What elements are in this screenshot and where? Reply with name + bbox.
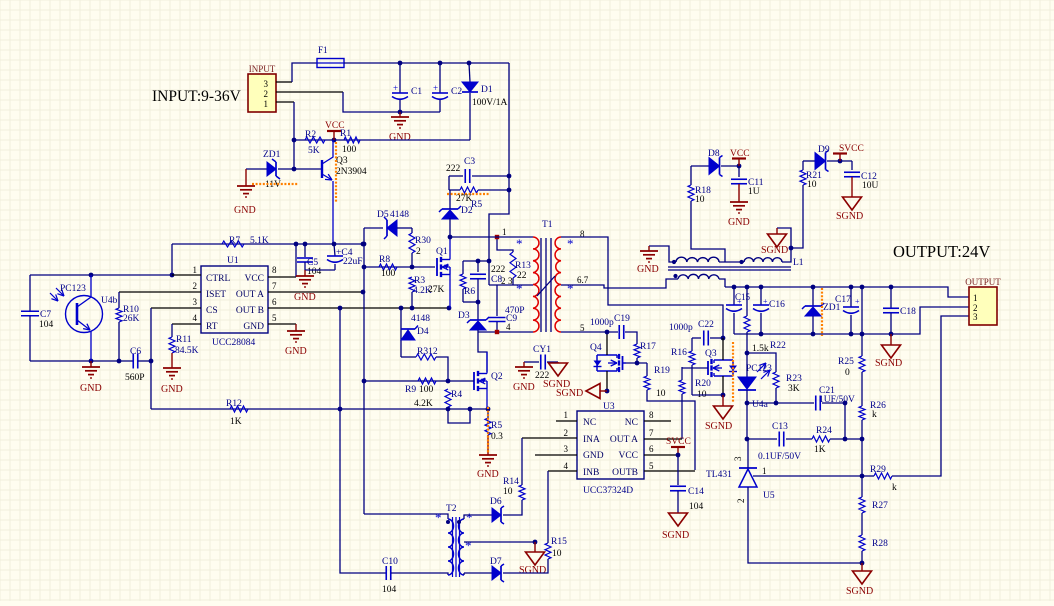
svg-text:GND: GND xyxy=(80,383,102,394)
svg-text:GND: GND xyxy=(161,384,183,395)
svg-text:CY1: CY1 xyxy=(533,345,551,355)
svg-text:R24: R24 xyxy=(816,426,832,436)
svg-text:R16: R16 xyxy=(671,348,687,358)
svg-text:SGND: SGND xyxy=(761,245,788,256)
svg-text:7: 7 xyxy=(649,428,654,438)
svg-text:L1: L1 xyxy=(793,258,804,268)
svg-text:2: 2 xyxy=(736,499,746,504)
svg-text:8: 8 xyxy=(272,265,277,275)
svg-text:10U: 10U xyxy=(862,181,879,191)
svg-text:R27: R27 xyxy=(872,501,888,511)
svg-text:*: * xyxy=(567,281,574,296)
svg-text:D7: D7 xyxy=(490,557,502,567)
svg-text:U5: U5 xyxy=(763,491,775,501)
svg-text:+: + xyxy=(393,83,398,93)
svg-text:INA: INA xyxy=(583,435,600,445)
svg-text:OUT A: OUT A xyxy=(610,435,638,445)
svg-text:2: 2 xyxy=(193,281,198,291)
svg-text:U4a: U4a xyxy=(752,400,769,410)
svg-text:INPUT: INPUT xyxy=(249,64,276,74)
svg-text:R8: R8 xyxy=(379,255,390,265)
svg-text:GND: GND xyxy=(477,469,499,480)
svg-text:2: 2 xyxy=(416,247,421,257)
svg-text:R4: R4 xyxy=(451,390,462,400)
svg-text:4148: 4148 xyxy=(411,314,430,324)
svg-text:C13: C13 xyxy=(772,422,788,432)
svg-text:222: 222 xyxy=(446,164,461,174)
svg-text:27K: 27K xyxy=(428,285,445,295)
svg-text:4: 4 xyxy=(506,322,511,332)
svg-text:VCC: VCC xyxy=(244,274,264,284)
svg-text:5K: 5K xyxy=(308,146,320,156)
svg-text:GND: GND xyxy=(294,292,316,303)
svg-text:84.5K: 84.5K xyxy=(175,346,199,356)
svg-text:7: 7 xyxy=(272,281,277,291)
svg-text:5: 5 xyxy=(649,461,654,471)
svg-text:INPUT:9-36V: INPUT:9-36V xyxy=(152,88,242,105)
svg-text:C16: C16 xyxy=(769,300,785,310)
svg-text:Q1: Q1 xyxy=(436,247,448,257)
svg-text:SGND: SGND xyxy=(875,358,902,369)
svg-text:*: * xyxy=(516,236,523,251)
svg-text:10: 10 xyxy=(695,195,705,205)
svg-text:1: 1 xyxy=(264,99,269,109)
svg-text:1U: 1U xyxy=(748,187,760,197)
svg-text:1000p: 1000p xyxy=(590,318,614,328)
svg-text:1K: 1K xyxy=(230,417,242,427)
svg-text:C22: C22 xyxy=(698,320,714,330)
svg-text:C17: C17 xyxy=(835,295,851,305)
svg-text:Q2: Q2 xyxy=(491,372,503,382)
svg-text:22: 22 xyxy=(517,271,527,281)
svg-text:Q3: Q3 xyxy=(336,156,348,166)
svg-text:GND: GND xyxy=(243,322,264,332)
svg-text:C7: C7 xyxy=(40,310,51,320)
svg-text:4: 4 xyxy=(193,313,198,323)
svg-text:INB: INB xyxy=(583,468,599,478)
svg-text:SGND: SGND xyxy=(519,565,546,576)
svg-text:GND: GND xyxy=(637,264,659,275)
svg-text:3: 3 xyxy=(973,312,978,322)
svg-text:OUT B: OUT B xyxy=(236,306,264,316)
svg-text:GND: GND xyxy=(583,451,604,461)
svg-text:6.7: 6.7 xyxy=(577,275,589,285)
svg-text:104: 104 xyxy=(382,585,397,595)
svg-text:R30: R30 xyxy=(415,236,431,246)
svg-text:RT: RT xyxy=(206,322,218,332)
svg-text:ZD1: ZD1 xyxy=(263,150,281,160)
svg-text:D1: D1 xyxy=(481,85,493,95)
svg-text:CTRL: CTRL xyxy=(206,274,230,284)
svg-text:SGND: SGND xyxy=(846,586,873,597)
svg-text:D8: D8 xyxy=(708,149,720,159)
svg-text:OUTPUT:24V: OUTPUT:24V xyxy=(893,242,990,261)
svg-text:GND: GND xyxy=(728,217,750,228)
svg-text:VCC: VCC xyxy=(325,121,345,131)
svg-text:OUT A: OUT A xyxy=(236,290,264,300)
svg-text:T2: T2 xyxy=(446,504,457,514)
svg-text:222: 222 xyxy=(491,265,506,275)
svg-text:UCC28084: UCC28084 xyxy=(212,338,256,348)
svg-text:GND: GND xyxy=(285,346,307,357)
svg-text:10: 10 xyxy=(552,549,562,559)
svg-text:R15: R15 xyxy=(551,537,567,547)
svg-text:C18: C18 xyxy=(900,307,916,317)
svg-text:U3: U3 xyxy=(603,402,615,412)
svg-text:26K: 26K xyxy=(123,314,140,324)
svg-text:F1: F1 xyxy=(318,45,328,55)
svg-text:3: 3 xyxy=(264,79,269,89)
svg-text:Q4: Q4 xyxy=(590,343,602,353)
svg-text:C10: C10 xyxy=(382,557,398,567)
svg-text:R3: R3 xyxy=(414,276,425,286)
svg-text:U1: U1 xyxy=(227,256,239,266)
svg-text:UCC37324D: UCC37324D xyxy=(583,486,633,496)
svg-text:22uF: 22uF xyxy=(343,257,363,267)
svg-text:6: 6 xyxy=(272,297,277,307)
svg-text:104: 104 xyxy=(39,320,54,330)
svg-text:k: k xyxy=(892,483,897,493)
svg-text:Q3: Q3 xyxy=(705,349,717,359)
svg-text:R9: R9 xyxy=(405,385,416,395)
svg-text:R312: R312 xyxy=(417,347,438,357)
svg-text:D5: D5 xyxy=(377,210,389,220)
svg-text:+: + xyxy=(763,297,768,306)
svg-text:*: * xyxy=(435,510,442,525)
svg-text:1000p: 1000p xyxy=(669,323,693,333)
svg-text:100: 100 xyxy=(419,385,434,395)
svg-text:1: 1 xyxy=(564,410,569,420)
svg-text:104: 104 xyxy=(689,502,704,512)
svg-text:2: 2 xyxy=(264,89,269,99)
svg-text:3: 3 xyxy=(733,456,743,461)
svg-text:R14: R14 xyxy=(503,477,519,487)
svg-text:2N3904: 2N3904 xyxy=(336,167,367,177)
svg-text:R7: R7 xyxy=(229,236,240,246)
svg-text:8: 8 xyxy=(649,410,654,420)
svg-text:*: * xyxy=(465,538,472,553)
svg-text:0: 0 xyxy=(845,368,850,378)
svg-text:C6: C6 xyxy=(130,347,141,357)
svg-text:R29: R29 xyxy=(870,465,886,475)
svg-text:10: 10 xyxy=(807,180,817,190)
svg-text:OUTPUT: OUTPUT xyxy=(965,277,1001,287)
svg-text:TL431: TL431 xyxy=(706,470,732,480)
svg-text:0.1UF/50V: 0.1UF/50V xyxy=(758,452,801,462)
svg-text:R19: R19 xyxy=(654,366,670,376)
svg-text:100: 100 xyxy=(342,145,357,155)
svg-text:R22: R22 xyxy=(770,341,786,351)
svg-text:R13: R13 xyxy=(515,261,531,271)
svg-text:560P: 560P xyxy=(125,373,145,383)
svg-text:R25: R25 xyxy=(838,357,854,367)
svg-text:SGND: SGND xyxy=(662,530,689,541)
svg-text:SGND: SGND xyxy=(543,379,570,390)
svg-text:D6: D6 xyxy=(490,497,502,507)
svg-text:3: 3 xyxy=(193,297,198,307)
svg-text:VCC: VCC xyxy=(618,451,638,461)
svg-text:*: * xyxy=(567,236,574,251)
svg-text:3: 3 xyxy=(508,276,513,286)
svg-text:GND: GND xyxy=(513,382,535,393)
svg-text:5.1K: 5.1K xyxy=(250,236,269,246)
svg-text:R23: R23 xyxy=(786,374,802,384)
svg-text:R12: R12 xyxy=(226,399,242,409)
svg-text:SVCC: SVCC xyxy=(666,437,691,447)
svg-text:1: 1 xyxy=(973,293,978,303)
svg-text:2: 2 xyxy=(501,276,506,286)
svg-text:3: 3 xyxy=(564,444,569,454)
svg-text:10: 10 xyxy=(503,487,513,497)
svg-text:100: 100 xyxy=(381,269,396,279)
svg-text:1: 1 xyxy=(193,265,198,275)
svg-text:D9: D9 xyxy=(818,145,830,155)
svg-text:SGND: SGND xyxy=(836,211,863,222)
svg-text:R20: R20 xyxy=(695,379,711,389)
svg-text:10: 10 xyxy=(656,389,666,399)
svg-text:1: 1 xyxy=(762,466,767,476)
svg-text:1: 1 xyxy=(502,227,507,237)
svg-text:3K: 3K xyxy=(788,384,800,394)
svg-text:1K: 1K xyxy=(814,445,826,455)
svg-text:4.2K: 4.2K xyxy=(414,399,433,409)
svg-text:C19: C19 xyxy=(614,314,630,324)
svg-text:NC: NC xyxy=(625,418,638,428)
svg-text:CS: CS xyxy=(206,306,218,316)
svg-text:*: * xyxy=(516,281,523,296)
svg-text:6: 6 xyxy=(649,444,654,454)
svg-text:5: 5 xyxy=(272,313,277,323)
svg-text:R6: R6 xyxy=(464,287,475,297)
svg-text:C2: C2 xyxy=(451,87,462,97)
svg-text:U4b: U4b xyxy=(101,296,118,306)
svg-text:GND: GND xyxy=(389,132,411,143)
svg-text:SGND: SGND xyxy=(705,421,732,432)
svg-text:D3: D3 xyxy=(458,311,470,321)
svg-text:2: 2 xyxy=(564,428,569,438)
svg-text:PC123: PC123 xyxy=(60,284,86,294)
svg-text:C14: C14 xyxy=(688,487,704,497)
svg-text:ISET: ISET xyxy=(206,290,226,300)
svg-text:C3: C3 xyxy=(464,157,475,167)
svg-text:OUTB: OUTB xyxy=(612,468,638,478)
svg-text:R2: R2 xyxy=(305,130,316,140)
svg-text:+: + xyxy=(737,297,742,306)
svg-text:NC: NC xyxy=(583,418,596,428)
svg-text:0.3: 0.3 xyxy=(491,432,503,442)
svg-text:R11: R11 xyxy=(176,335,192,345)
svg-text:R17: R17 xyxy=(640,342,656,352)
svg-text:T1: T1 xyxy=(542,220,553,230)
svg-text:100V/1A: 100V/1A xyxy=(472,98,508,108)
svg-text:k: k xyxy=(872,410,877,420)
svg-text:+: + xyxy=(433,83,438,93)
svg-text:+: + xyxy=(855,297,860,306)
svg-text:1UF/50V: 1UF/50V xyxy=(819,395,855,405)
svg-text:R5: R5 xyxy=(471,200,482,210)
svg-text:R5: R5 xyxy=(491,421,502,431)
svg-text:*: * xyxy=(466,510,473,525)
svg-text:C1: C1 xyxy=(411,87,422,97)
svg-text:D4: D4 xyxy=(417,327,429,337)
svg-text:4: 4 xyxy=(564,461,569,471)
svg-text:R28: R28 xyxy=(872,539,888,549)
svg-text:4148: 4148 xyxy=(390,210,409,220)
svg-text:GND: GND xyxy=(234,205,256,216)
